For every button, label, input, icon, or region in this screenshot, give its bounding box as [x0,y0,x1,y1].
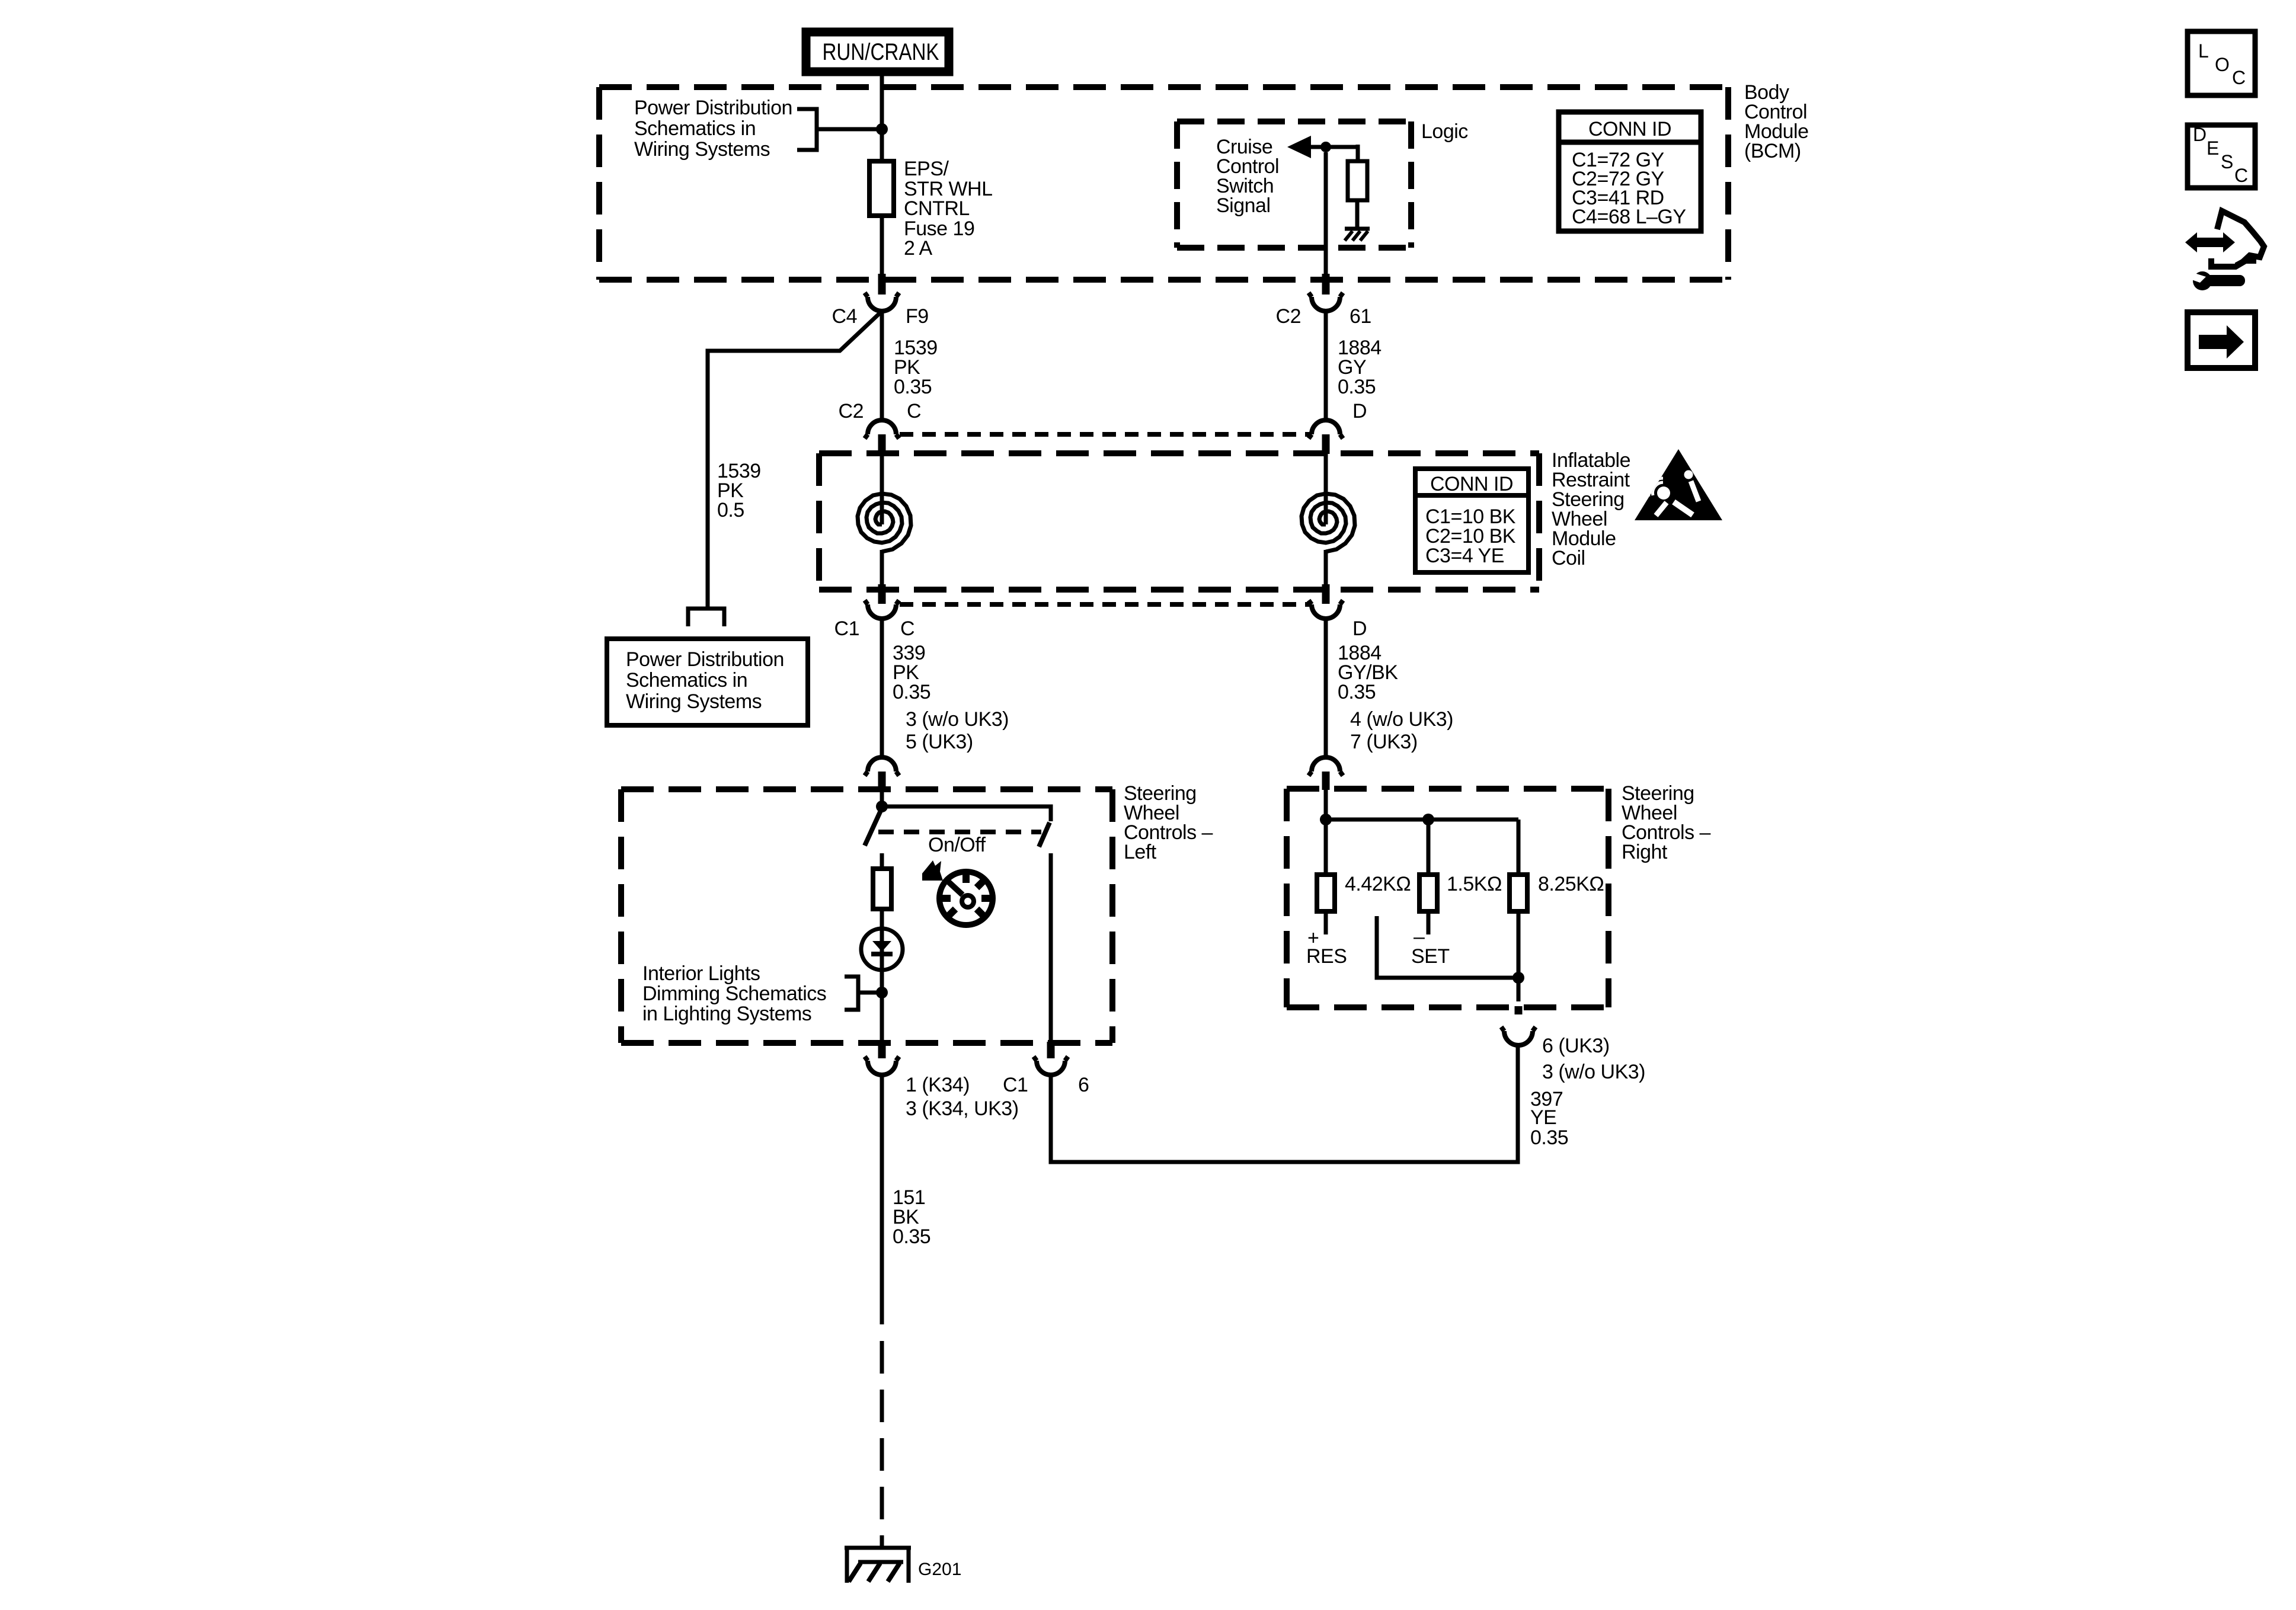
pin label 61 [1350,305,1371,328]
svg-text:O: O [2215,54,2230,75]
pin label C (lower left) [900,617,914,640]
icon: LOC box [2188,31,2255,95]
svg-text:S: S [2221,151,2233,172]
svg-text:CONN ID: CONN ID [1588,118,1671,140]
wire: left coil to box edge [880,550,884,584]
wire: into on/off switch [880,790,884,806]
svg-text:1 (K34): 1 (K34) [906,1074,970,1096]
connector into left steering wheel controls [865,757,899,790]
label: G201 [918,1560,961,1579]
svg-text:F9: F9 [906,305,929,328]
label: circuit 1539 PK 0.5 [717,460,761,521]
wire: drop to R 4.42K [1324,820,1328,875]
svg-text:C1: C1 [834,617,859,640]
wire: switch common stub [1377,916,1518,978]
wire: into right coil [1324,454,1328,524]
svg-text:D: D [1352,400,1367,422]
node: junction at logic branch [1320,142,1331,152]
svg-text:Power Distribution: Power Distribution [626,648,784,671]
node: output junction [1512,972,1524,984]
label: + RES [1306,927,1347,968]
svg-text:E: E [2207,137,2219,159]
Steering Wheel Controls - Right dashed box [1287,789,1609,1007]
gauge icon (illumination dimming) [939,871,993,925]
label: circuit 397 YE 0.35 [1530,1088,1568,1149]
ground (logic reference) [1345,229,1370,241]
svg-text:0.5: 0.5 [717,499,744,521]
svg-text:1.5KΩ: 1.5KΩ [1447,873,1502,895]
label: Body Control Module (BCM) [1744,81,1809,162]
svg-text:0.35: 0.35 [894,376,932,398]
label: On/Off [928,834,986,856]
svg-text:CNTRL: CNTRL [904,197,970,220]
pin label D (lower right) [1352,617,1367,640]
svg-text:0.35: 0.35 [1338,681,1376,703]
in-line connector face (lower) [900,602,1310,607]
svg-text:CONN ID: CONN ID [1430,473,1513,495]
label: 4.42KOhm [1345,873,1411,895]
resistor (BCM internal pull-up) [1348,161,1367,200]
wire: drop to R 1.5K [1427,820,1431,875]
connector C2 pin 61 (BCM right output) [1309,274,1343,311]
label: circuit 1884 GY 0.35 [1338,337,1382,398]
off-page fork connector [688,609,724,626]
connector C1 pin 1/3 (left box output) [865,1042,899,1075]
label: Power Distribution Schematics in Wiring Systems (top) [634,97,792,161]
fuse F19 EPS/STR WHL CNTRL 2A [869,161,894,216]
pin label C2 [1276,305,1301,328]
connector C1 pin C (coil left output) [865,584,899,619]
svg-text:EPS/: EPS/ [904,158,949,180]
coil (clockspring, right) [1302,494,1355,552]
svg-text:3 (K34, UK3): 3 (K34, UK3) [906,1097,1019,1120]
pin label C1 (left) [834,617,859,640]
svg-text:YE: YE [1530,1106,1556,1129]
svg-text:Schematics in: Schematics in [626,669,747,692]
svg-text:C3=4 YE: C3=4 YE [1425,545,1504,567]
off-page bracket: Power Distribution Schematics [797,109,817,150]
svg-text:C2: C2 [1276,305,1301,328]
svg-text:C2: C2 [839,400,864,422]
svg-text:C4=68 L–GY: C4=68 L–GY [1572,206,1686,228]
svg-text:D: D [2193,124,2207,145]
label: pins 4 (w/o UK3) / 7 (UK3) [1350,708,1453,753]
label: pin 1 (K34) [906,1074,970,1096]
power feed label RUN/CRANK [806,32,949,72]
CONN ID table (BCM) [1559,112,1701,231]
svg-text:RES: RES [1306,945,1347,968]
wire: below R 4.42K (open, +RES) [1324,911,1328,934]
label: pin 3 (w/o UK3) [1542,1061,1645,1083]
node: ladder junction A [1320,814,1332,825]
dimming arrow icon [922,860,943,881]
label: pin 6 [1078,1074,1089,1096]
wire: link to interior lights dimming [858,991,882,995]
wire: ladder bus [1326,818,1518,822]
svg-text:7 (UK3): 7 (UK3) [1350,731,1418,753]
svg-text:in Lighting Systems: in Lighting Systems [642,1003,811,1025]
off-page bracket: interior lights dimming [845,977,858,1010]
svg-text:6 (UK3): 6 (UK3) [1542,1035,1610,1057]
switch blade (left, on/off) [865,811,881,846]
svg-text:3 (w/o UK3): 3 (w/o UK3) [906,708,1009,731]
node: dimming feed junction [876,987,888,998]
BCM module dashed box [599,87,1728,280]
SIR coil module dashed box [819,453,1539,590]
svg-text:D: D [1352,617,1367,640]
LED (backlighting) [861,929,903,970]
connector pin D (into coil, right) [1309,420,1343,454]
node: junction on run/crank feed [876,123,888,135]
label: Logic [1421,120,1468,143]
svg-text:L: L [2198,40,2209,62]
wire 397 YE 0.35 (cross link) [1051,1045,1518,1162]
label: - SET [1411,926,1450,968]
reference box: Power Distribution Schematics in Wiring Systems [607,639,808,725]
label: Cruise Control Switch Signal [1216,136,1279,217]
node: switch feed junction [876,801,888,812]
connector pin 6/3 (right box output) [1501,1006,1536,1045]
svg-text:Signal: Signal [1216,194,1271,217]
label: circuit 1884 GY/BK 0.35 [1338,642,1398,703]
connector C2 pin C (into coil, left) [865,420,899,454]
svg-text:On/Off: On/Off [928,834,986,856]
resistor (illumination, left box) [873,869,891,909]
wire: into left coil [880,454,884,524]
label: pin 3 (K34, UK3) [906,1097,1019,1120]
svg-text:Coil: Coil [1552,547,1585,569]
svg-text:C: C [907,400,921,422]
wire: RUN/CRANK to fuse [880,76,884,161]
label: fuse name/value [904,158,993,260]
pin label C2 (left) [839,400,864,422]
svg-text:C4: C4 [832,305,857,328]
wire 1884 GY/BK 0.35 [1324,619,1328,757]
svg-text:0.35: 0.35 [893,681,930,703]
svg-text:0.35: 0.35 [893,1225,930,1248]
wire: switch to resistor [880,853,884,869]
wire: branch to pull-up resistor [1356,145,1360,161]
label: 8.25KOhm [1538,873,1604,895]
wire 339 PK 0.35 [880,619,884,757]
connector into right steering wheel controls [1309,757,1343,790]
label: Steering Wheel Controls - Right [1622,782,1711,863]
svg-text:5 (UK3): 5 (UK3) [906,731,973,753]
wire: dashed continuation to G201 [880,1341,884,1548]
switch mechanical link (dashed) [878,830,1041,834]
svg-text:RUN/CRANK: RUN/CRANK [823,39,939,65]
connector pin D (coil right output) [1309,584,1343,619]
resistor 1.5K (SET) [1419,875,1437,911]
Steering Wheel Controls - Left dashed box [621,789,1112,1043]
switch blade (right) [1039,822,1050,847]
svg-text:C: C [2234,165,2248,186]
label: circuit 151 BK 0.35 [893,1186,930,1248]
wire: right coil to box edge [1324,550,1328,584]
label: 1.5KOhm [1447,873,1502,895]
in-line connector face (upper) [900,432,1310,437]
svg-text:Wiring Systems: Wiring Systems [626,690,762,713]
Cruise Control logic dashed box [1177,121,1411,248]
svg-text:Interior Lights: Interior Lights [642,962,760,985]
icon: DESC box [2188,124,2255,188]
coil (clockspring, left) [858,494,911,552]
signal arrow (to cruise control switch signal) [1287,136,1358,158]
SIR warning triangle icon [1635,449,1722,520]
CONN ID table (coil module) [1415,469,1528,572]
svg-text:Logic: Logic [1421,120,1468,143]
wire: into resistor ladder [1324,790,1328,820]
svg-text:Dimming Schematics: Dimming Schematics [642,982,826,1005]
svg-text:0.35: 0.35 [1530,1126,1568,1149]
wire: below R 8.25K to output [1517,911,1521,1001]
svg-text:Wiring Systems: Wiring Systems [634,138,770,161]
resistor 8.25K [1510,875,1527,911]
wire: junction to right switch leg [882,806,1051,821]
svg-text:61: 61 [1350,305,1371,328]
wire 1539 PK 0.35 (left drop) [880,311,884,420]
svg-text:Left: Left [1124,841,1157,863]
svg-text:C: C [2232,67,2246,88]
wire: resistor to LED and out [880,909,884,1043]
pin label C (left) [907,400,921,422]
label: circuit 339 PK 0.35 [893,642,930,703]
label: circuit 1539 PK 0.35 [894,337,938,398]
pin label D (upper right) [1352,400,1367,422]
svg-text:C1: C1 [1003,1074,1028,1096]
svg-text:3 (w/o UK3): 3 (w/o UK3) [1542,1061,1645,1083]
svg-text:8.25KΩ: 8.25KΩ [1538,873,1604,895]
svg-text:(BCM): (BCM) [1744,140,1801,162]
svg-text:2 A: 2 A [904,237,932,260]
wire: right switch leg down [1049,853,1053,1043]
wire: link to Power Distribution reference [817,127,882,132]
resistor 4.42K (RES) [1317,875,1335,911]
wire: C4/F9 branch to power distribution (1539 PK 0.5) [708,312,881,607]
label: Interior Lights Dimming Schematics in Lighting Systems [642,962,826,1025]
connector C1 pin 6 (left box output) [1034,1042,1068,1075]
svg-text:Power Distribution: Power Distribution [634,97,792,119]
label: pins 3 (w/o UK3) / 5 (UK3) [906,708,1009,753]
svg-text:G201: G201 [918,1560,961,1579]
wire 151 BK 0.35 (ground drop) [880,1075,884,1324]
svg-text:Right: Right [1622,841,1668,863]
svg-text:6: 6 [1078,1074,1089,1096]
svg-text:SET: SET [1411,945,1450,968]
ground G201 symbol [845,1548,911,1583]
node: ladder junction B [1422,814,1434,825]
wire: logic junction down to BCM edge [1324,152,1328,275]
svg-text:0.35: 0.35 [1338,376,1376,398]
connector C4 pin F9 (BCM left output) [865,274,899,311]
svg-text:C: C [900,617,914,640]
wire 1884 GY 0.35 (right drop) [1324,311,1328,420]
svg-text:4 (w/o UK3): 4 (w/o UK3) [1350,708,1453,731]
label: Steering Wheel Controls - Left [1124,782,1213,863]
svg-text:4.42KΩ: 4.42KΩ [1345,873,1411,895]
label: Inflatable Restraint Steering Wheel Module Coil [1552,449,1630,569]
pin label C4 [832,305,857,328]
icon: arrow box [2188,312,2255,368]
label: connector C1 (bottom) [1003,1074,1028,1096]
wire: resistor to logic ground [1355,200,1360,229]
wire: drop to R 8.25K [1517,820,1521,875]
icon: wrench and double arrow [2185,211,2264,290]
wire: below R 1.5K (open, -SET) [1427,911,1431,934]
label: pin 6 (UK3) [1542,1035,1610,1057]
pin label F9 [906,305,929,328]
svg-text:Schematics in: Schematics in [634,117,756,140]
wire: fuse to BCM edge [880,216,884,275]
